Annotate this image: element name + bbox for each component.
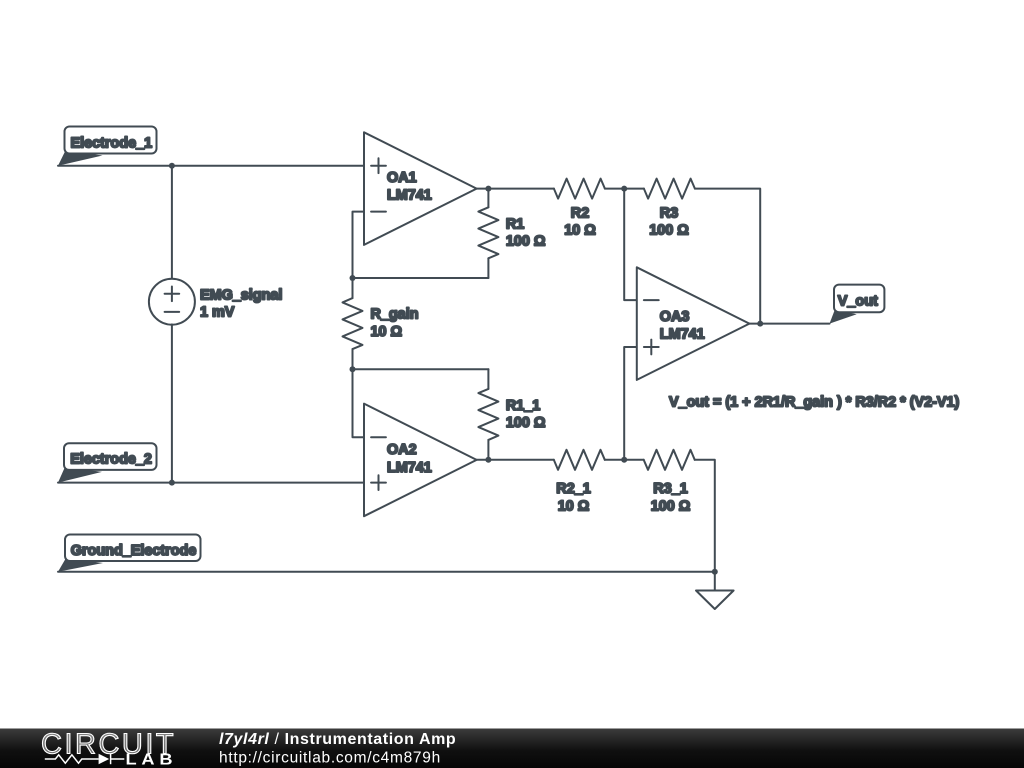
- wire: Ground_Electrode: [58, 571, 715, 573]
- svg-text:OA3: OA3: [660, 309, 690, 325]
- svg-text:R2: R2: [571, 206, 589, 222]
- svg-text:OA1: OA1: [387, 170, 417, 186]
- wire: R_gain bottom to R1_1 top: [353, 368, 489, 370]
- wire: OA2 output: [477, 459, 554, 461]
- op-amp OA1 LM741: [364, 132, 477, 245]
- resistor R2_1 10 Ω: [554, 450, 605, 515]
- resistor R1 100 Ω: [478, 189, 545, 278]
- wire: OA3 output to V_out: [749, 323, 829, 325]
- junction: OA3 inverting node: [621, 186, 627, 192]
- resistor R3_1 100 Ω: [644, 450, 695, 515]
- svg-text:100 Ω: 100 Ω: [506, 415, 546, 431]
- svg-text:V_out = (1 + 2R1/R_gain ) * R3: V_out = (1 + 2R1/R_gain ) * R3/R2 * (V2-…: [669, 395, 960, 411]
- wire: OA3 - input feed: [624, 189, 637, 301]
- wire: R2_1 to R3_1 (OA3 + node): [605, 459, 644, 461]
- footer bar: [0, 729, 1024, 768]
- resistor R1_1 100 Ω: [478, 369, 545, 460]
- svg-text:LAB: LAB: [126, 750, 178, 768]
- junction: OA1 output node: [485, 186, 491, 192]
- svg-text:R3: R3: [660, 206, 678, 222]
- svg-text:R1: R1: [506, 217, 524, 233]
- svg-text:1 mV: 1 mV: [200, 305, 235, 321]
- wire: R3_1 to ground node: [695, 460, 715, 572]
- svg-text:10 Ω: 10 Ω: [564, 223, 596, 239]
- svg-text:R3_1: R3_1: [653, 481, 687, 497]
- wire: R2 to R3 (OA3 - node): [605, 188, 644, 190]
- wire: node V1 vertical to EMG + terminal: [171, 166, 173, 279]
- net flag Ground_Electrode: [58, 535, 201, 572]
- junction: OA3 output node: [757, 321, 763, 327]
- wire: Electrode_1 to OA1 + input: [58, 165, 364, 167]
- wire: R3 to OA3 output (feedback): [695, 189, 760, 324]
- wire: EMG - terminal vertical to node V2: [171, 324, 173, 482]
- svg-text:OA2: OA2: [387, 442, 417, 458]
- resistor R_gain 10 Ω: [343, 278, 419, 369]
- wire: R_gain top to R1 bottom: [353, 277, 489, 279]
- svg-text:R1_1: R1_1: [506, 398, 540, 414]
- svg-text:10 Ω: 10 Ω: [371, 324, 403, 340]
- op-amp OA3 LM741: [637, 267, 750, 380]
- resistor R3 100 Ω: [644, 179, 695, 239]
- svg-text:R_gain: R_gain: [371, 307, 419, 323]
- wire: Electrode_2 to OA2 + input: [58, 482, 364, 484]
- junction: OA2 output node: [485, 457, 491, 463]
- wire: OA3 + input feed: [624, 347, 637, 460]
- net flag V_out: [830, 285, 885, 324]
- op-amp OA2 LM741: [364, 404, 477, 517]
- svg-text:V_out: V_out: [838, 293, 878, 309]
- resistor R2 10 Ω: [554, 179, 605, 239]
- svg-text:EMG_signal: EMG_signal: [200, 288, 282, 304]
- svg-text:100 Ω: 100 Ω: [651, 498, 691, 514]
- wire: R_gain bottom to OA2 - input: [353, 369, 365, 437]
- wire: OA1 - input to R_gain top: [353, 212, 365, 278]
- junction: R_gain bottom node: [350, 366, 356, 372]
- svg-text:LM741: LM741: [387, 188, 432, 204]
- junction: Electrode_2 / EMG -: [169, 480, 175, 486]
- svg-text:http://circuitlab.com/c4m879h: http://circuitlab.com/c4m879h: [219, 750, 441, 767]
- ground symbol: [696, 572, 734, 609]
- CircuitLab logo resistor-diode glyph: [45, 754, 125, 764]
- junction: OA3 non-inverting node: [621, 457, 627, 463]
- svg-text:LM741: LM741: [387, 460, 432, 476]
- svg-text:Electrode_2: Electrode_2: [70, 452, 152, 468]
- svg-text:100 Ω: 100 Ω: [506, 234, 546, 250]
- svg-text:10 Ω: 10 Ω: [558, 498, 590, 514]
- svg-text:Electrode_1: Electrode_1: [71, 135, 153, 151]
- junction: ground node: [712, 569, 718, 575]
- junction: R_gain top node: [350, 275, 356, 281]
- wire: OA1 output: [477, 188, 554, 190]
- svg-text:R2_1: R2_1: [556, 481, 590, 497]
- junction: Electrode_1 / EMG +: [169, 163, 175, 169]
- svg-text:Ground_Electrode: Ground_Electrode: [71, 543, 197, 559]
- voltage source EMG_signal 1 mV: [149, 279, 282, 325]
- svg-text:LM741: LM741: [660, 327, 705, 343]
- svg-text:l7yl4rl / Instrumentation Amp: l7yl4rl / Instrumentation Amp: [219, 731, 456, 748]
- net flag Electrode_1: [58, 127, 157, 166]
- net flag Electrode_2: [58, 443, 157, 482]
- svg-text:100 Ω: 100 Ω: [649, 223, 689, 239]
